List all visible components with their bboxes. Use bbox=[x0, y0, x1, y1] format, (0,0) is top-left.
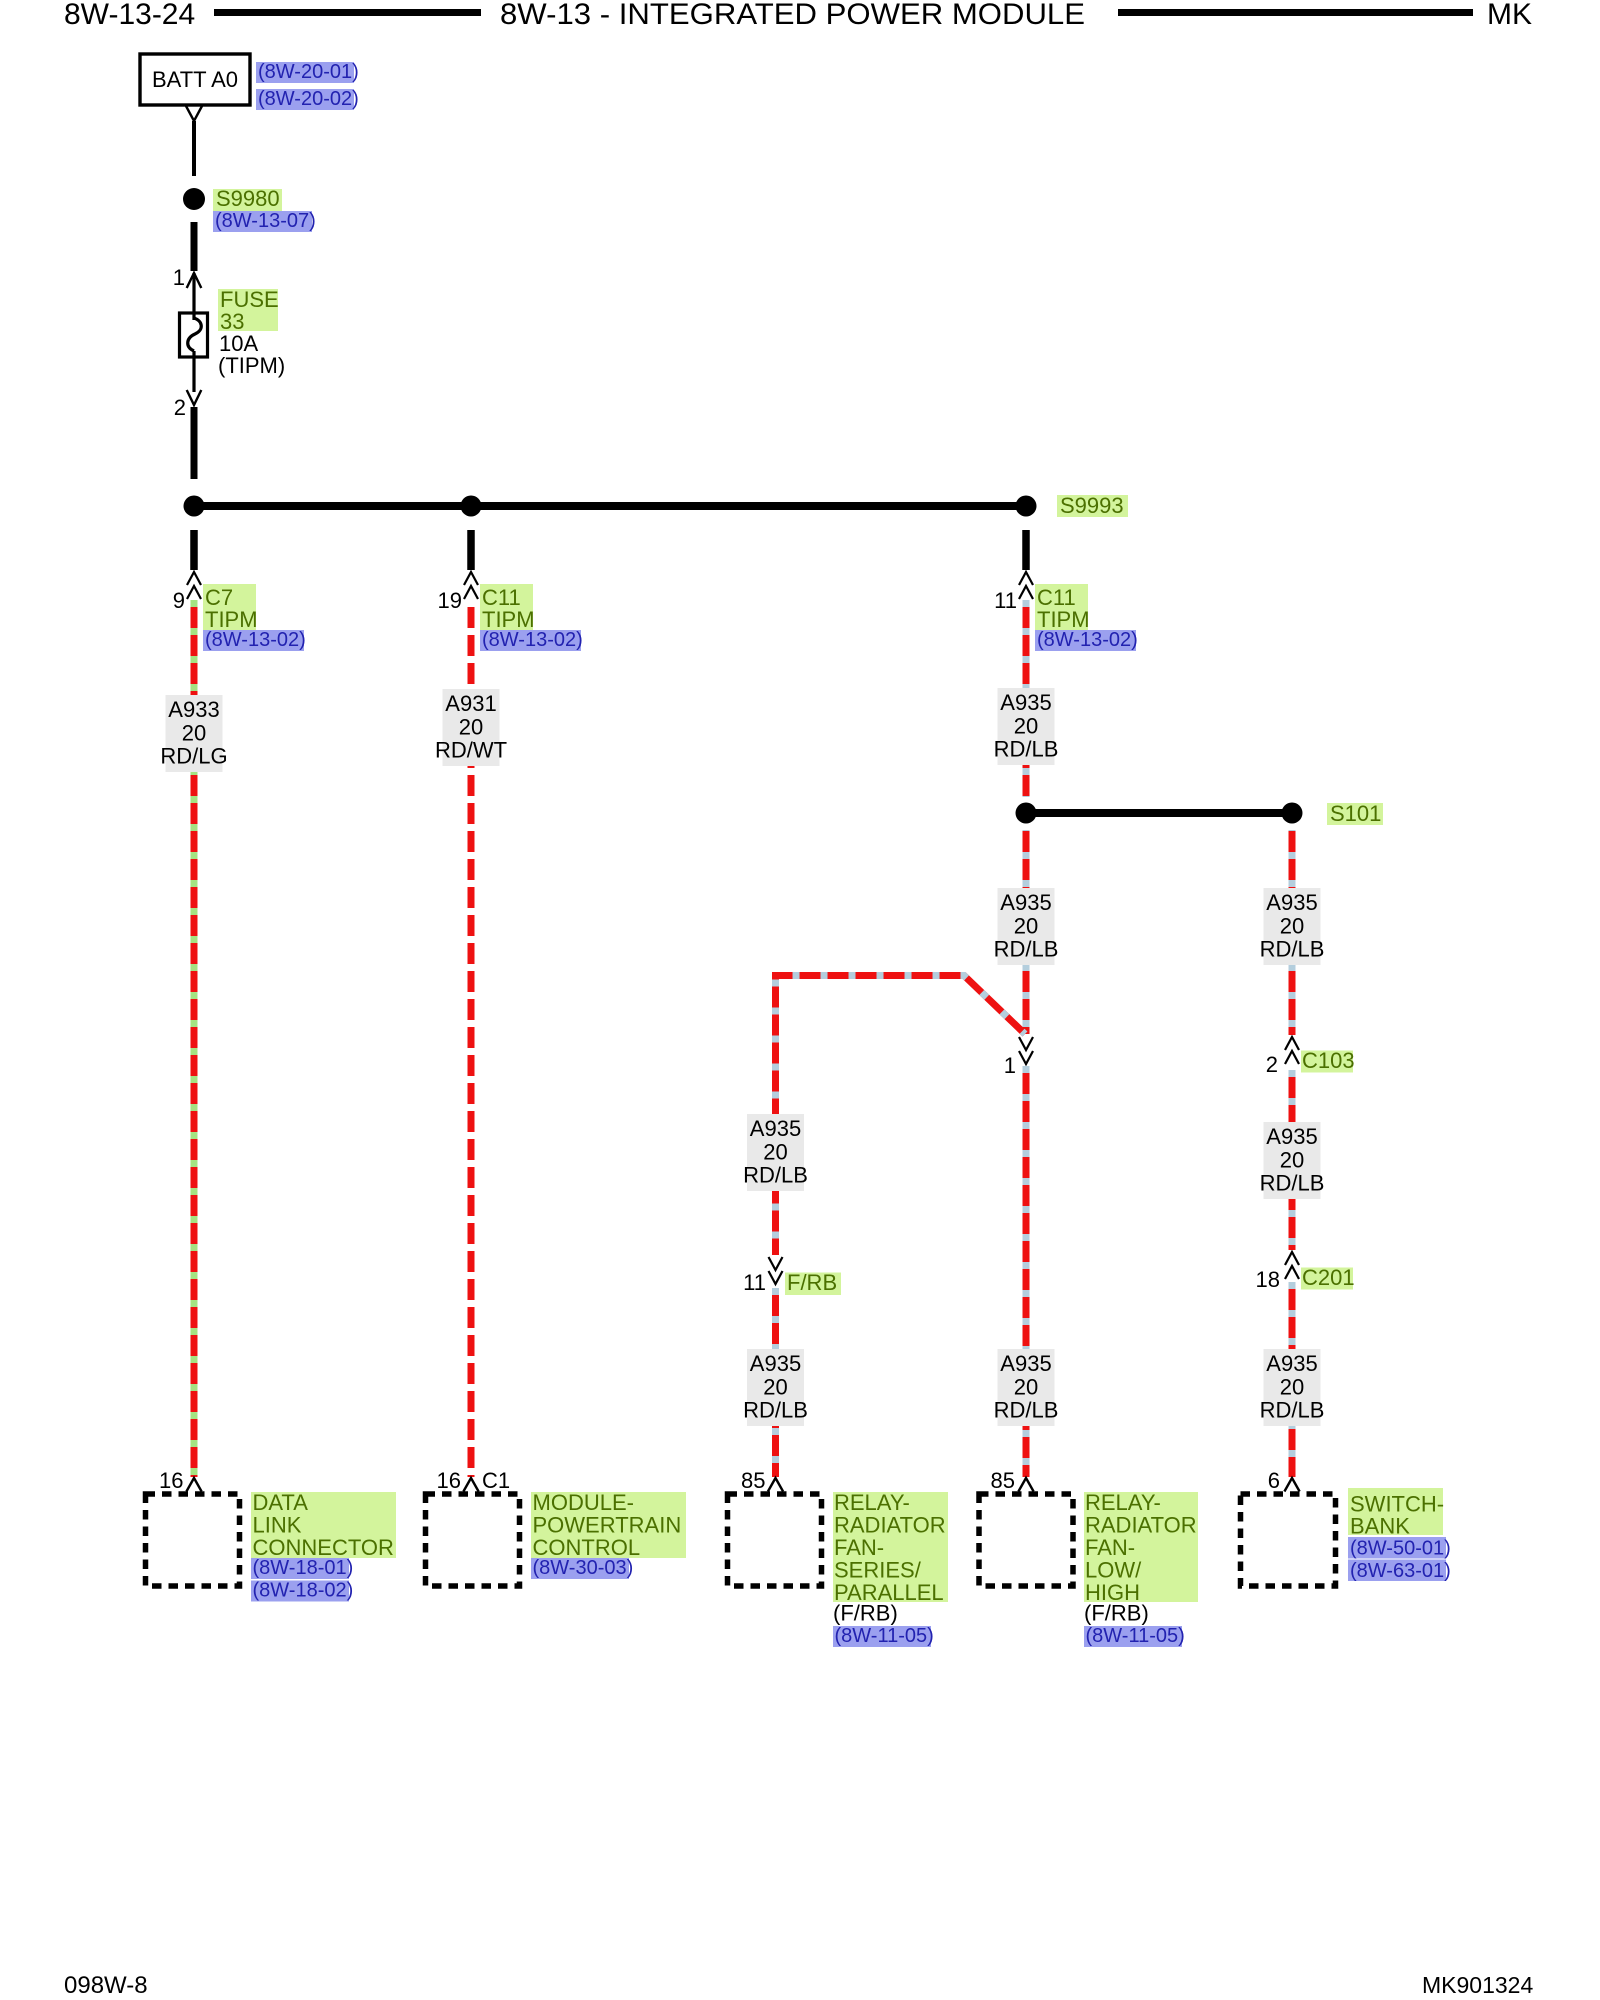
connector box data link connector bbox=[146, 1494, 240, 1586]
link (8W-50-01) bbox=[1348, 1537, 1446, 1559]
link (8W-30-03) bbox=[531, 1558, 629, 1579]
svg-text:A935: A935 bbox=[750, 1351, 801, 1376]
wire label A935 20 RD/LB (below S101 dot) bbox=[998, 888, 1055, 965]
wire label A935 20 RD/LB (right) bbox=[1264, 888, 1321, 965]
label S9980 bbox=[213, 189, 282, 211]
svg-text:(8W-20-01): (8W-20-01) bbox=[258, 61, 359, 83]
connector box relay radiator fan low/high bbox=[979, 1494, 1073, 1586]
link (8W-13-02) bbox=[203, 630, 304, 651]
wire A935 below pin 1 bbox=[1023, 1066, 1030, 1477]
svg-text:(8W-20-02): (8W-20-02) bbox=[258, 88, 359, 110]
svg-text:RD/LB: RD/LB bbox=[1260, 937, 1325, 962]
svg-text:(8W-63-01): (8W-63-01) bbox=[1350, 1560, 1451, 1582]
svg-text:1: 1 bbox=[1004, 1053, 1016, 1078]
svg-text:A935: A935 bbox=[750, 1116, 801, 1141]
svg-text:A935: A935 bbox=[1266, 890, 1317, 915]
svg-text:RD/LB: RD/LB bbox=[994, 1398, 1059, 1423]
wire A935 20 RD/LB right upper bbox=[1289, 830, 1296, 1035]
svg-text:A933: A933 bbox=[168, 697, 219, 722]
header rule left bbox=[214, 9, 481, 16]
svg-text:20: 20 bbox=[1014, 914, 1038, 939]
wire label A931 20 RD/WT bbox=[443, 689, 500, 766]
svg-text:20: 20 bbox=[182, 721, 206, 746]
wire fuse pin 2 to bus S9993 bbox=[191, 407, 198, 479]
svg-text:F/RB: F/RB bbox=[787, 1270, 837, 1295]
connector pin 9 C7 TIPM bbox=[187, 572, 201, 585]
svg-text:SERIES/: SERIES/ bbox=[834, 1558, 922, 1583]
svg-text:20: 20 bbox=[763, 1375, 787, 1400]
junction dot left bbox=[184, 496, 205, 517]
connector chevron below battery bbox=[186, 106, 202, 121]
header rule right bbox=[1118, 9, 1473, 16]
svg-text:16: 16 bbox=[437, 1468, 461, 1493]
fuse 33 element bbox=[188, 318, 202, 351]
connector pin 2 C103 bbox=[1285, 1037, 1299, 1050]
svg-text:8W-13-24: 8W-13-24 bbox=[64, 0, 195, 31]
svg-text:RD/LB: RD/LB bbox=[994, 737, 1059, 762]
junction dot S101 right bbox=[1282, 803, 1303, 824]
svg-text:RELAY-: RELAY- bbox=[834, 1490, 910, 1515]
label C103 bbox=[1301, 1051, 1353, 1073]
svg-text:098W-8: 098W-8 bbox=[64, 1972, 148, 1999]
svg-text:9: 9 bbox=[173, 588, 185, 613]
link (8W-20-02) bbox=[256, 89, 354, 110]
svg-text:A935: A935 bbox=[1000, 1351, 1051, 1376]
svg-text:C1: C1 bbox=[482, 1468, 510, 1493]
svg-text:20: 20 bbox=[1014, 1375, 1038, 1400]
label DATA LINK CONNECTOR bbox=[251, 1492, 396, 1558]
svg-text:MODULE-: MODULE- bbox=[533, 1490, 634, 1515]
svg-text:11: 11 bbox=[994, 588, 1017, 613]
junction dot middle bbox=[461, 496, 482, 517]
link (8W-11-05) bbox=[1084, 1626, 1182, 1647]
wire A935 to switch bank bbox=[1289, 1282, 1296, 1477]
wire A935 through S101 bbox=[1023, 830, 1030, 1034]
svg-text:(8W-18-02): (8W-18-02) bbox=[253, 1580, 354, 1602]
label C7 TIPM bbox=[203, 584, 256, 630]
svg-text:85: 85 bbox=[991, 1468, 1015, 1493]
wire A935 20 RD/LB upper bbox=[1023, 600, 1030, 797]
label SWITCH-BANK bbox=[1348, 1488, 1443, 1535]
label MODULE-POWERTRAIN CONTROL bbox=[531, 1492, 686, 1558]
link (8W-20-01) bbox=[256, 62, 354, 83]
wire out of fuse bbox=[192, 351, 195, 392]
label FUSE 33 bbox=[218, 289, 278, 331]
svg-text:20: 20 bbox=[459, 715, 483, 740]
svg-text:RADIATOR: RADIATOR bbox=[1085, 1513, 1197, 1538]
wire label A933 20 RD/LG bbox=[166, 695, 223, 772]
svg-text:19: 19 bbox=[438, 588, 462, 613]
link (8W-13-02) bbox=[1035, 630, 1136, 651]
junction dot right bbox=[1016, 496, 1037, 517]
wire splice S9980 to fuse pin 1 bbox=[191, 222, 198, 271]
stub from bus S9993 at x=194 bbox=[190, 530, 198, 570]
svg-text:DATA: DATA bbox=[253, 1490, 309, 1515]
svg-text:(F/RB): (F/RB) bbox=[833, 1601, 898, 1626]
svg-text:LINK: LINK bbox=[253, 1513, 302, 1538]
connector box switch bank bbox=[1241, 1494, 1336, 1586]
label C11 TIPM bbox=[480, 584, 533, 630]
svg-text:20: 20 bbox=[1280, 1375, 1304, 1400]
branch wire A935 to F/RB relay bbox=[776, 976, 1026, 1256]
svg-text:(8W-13-02): (8W-13-02) bbox=[482, 629, 583, 651]
svg-text:18: 18 bbox=[1256, 1267, 1280, 1292]
svg-text:C103: C103 bbox=[1302, 1048, 1355, 1073]
svg-text:2: 2 bbox=[174, 395, 186, 420]
connector pin 19 C11 TIPM bbox=[464, 572, 478, 585]
battery feed BATT A0 bbox=[140, 54, 250, 105]
svg-text:(8W-11-05): (8W-11-05) bbox=[835, 1625, 934, 1647]
stub from bus S9993 at x=1026 bbox=[1022, 530, 1030, 570]
svg-text:20: 20 bbox=[1014, 714, 1038, 739]
svg-text:RD/LB: RD/LB bbox=[743, 1163, 808, 1188]
svg-text:RD/WT: RD/WT bbox=[435, 738, 507, 763]
svg-text:6: 6 bbox=[1268, 1468, 1280, 1493]
svg-text:MK901324: MK901324 bbox=[1422, 1972, 1533, 1998]
connector pin 18 C201 bbox=[1285, 1252, 1299, 1265]
connector box relay radiator fan series/parallel bbox=[728, 1494, 822, 1586]
label C11 TIPM bbox=[1035, 584, 1088, 630]
label S9993 bbox=[1057, 495, 1128, 517]
svg-text:S9993: S9993 bbox=[1060, 493, 1124, 518]
link (8W-63-01) bbox=[1348, 1560, 1446, 1582]
wire label A935 20 RD/LB (mid right) bbox=[1264, 1122, 1321, 1199]
label RELAY-RADIATOR FAN-LOW/HIGH bbox=[1084, 1492, 1198, 1602]
svg-text:BATT A0: BATT A0 bbox=[152, 67, 238, 92]
svg-text:RD/LG: RD/LG bbox=[160, 744, 227, 769]
label RELAY-RADIATOR FAN-SERIES/PARALLEL bbox=[833, 1492, 948, 1602]
svg-text:85: 85 bbox=[741, 1468, 765, 1493]
svg-text:(8W-13-02): (8W-13-02) bbox=[205, 629, 306, 651]
wire A935 to series/parallel relay bbox=[772, 1288, 779, 1477]
svg-text:RD/LB: RD/LB bbox=[743, 1398, 808, 1423]
svg-text:RD/LB: RD/LB bbox=[994, 937, 1059, 962]
svg-text:MK: MK bbox=[1487, 0, 1532, 31]
svg-text:A935: A935 bbox=[1266, 1124, 1317, 1149]
svg-text:8W-13 - INTEGRATED POWER MODUL: 8W-13 - INTEGRATED POWER MODULE bbox=[500, 0, 1085, 31]
svg-text:20: 20 bbox=[1280, 1148, 1304, 1173]
svg-text:1: 1 bbox=[173, 265, 185, 290]
svg-text:C201: C201 bbox=[1302, 1265, 1355, 1290]
svg-text:RD/LB: RD/LB bbox=[1260, 1398, 1325, 1423]
svg-text:FAN-: FAN- bbox=[1085, 1535, 1135, 1560]
stub from bus S9993 at x=471 bbox=[467, 530, 475, 570]
wire label A935 20 RD/LB (left branch) bbox=[747, 1114, 804, 1191]
connector box powertrain control module bbox=[426, 1494, 520, 1586]
svg-text:(8W-50-01): (8W-50-01) bbox=[1350, 1538, 1451, 1560]
wire label A935 20 RD/LB (low/high relay) bbox=[998, 1349, 1055, 1426]
link (8W-13-07) bbox=[213, 211, 312, 232]
svg-text:20: 20 bbox=[763, 1140, 787, 1165]
junction dot S101 left bbox=[1016, 803, 1037, 824]
svg-text:20: 20 bbox=[1280, 914, 1304, 939]
link (8W-18-01) bbox=[251, 1558, 349, 1579]
svg-text:RELAY-: RELAY- bbox=[1085, 1490, 1161, 1515]
svg-text:(8W-11-05): (8W-11-05) bbox=[1086, 1625, 1185, 1647]
label F/RB bbox=[785, 1273, 841, 1296]
splice S9980 bbox=[183, 188, 205, 210]
svg-text:POWERTRAIN: POWERTRAIN bbox=[533, 1513, 682, 1538]
wire label A935 20 RD/LB (series relay) bbox=[747, 1349, 804, 1426]
connector pin 1 bbox=[1019, 1037, 1033, 1050]
svg-text:A931: A931 bbox=[445, 691, 496, 716]
svg-text:16: 16 bbox=[159, 1468, 183, 1493]
svg-text:(8W-13-07): (8W-13-07) bbox=[215, 210, 316, 232]
bus wire S101 bbox=[1026, 809, 1292, 817]
link (8W-13-02) bbox=[480, 630, 581, 651]
wire battery to splice S9980 bbox=[192, 121, 196, 176]
wire A935 between C103 and C201 bbox=[1289, 1070, 1296, 1250]
wire A931 20 RD/WT bbox=[468, 600, 475, 1477]
connector pin 11 C11 TIPM bbox=[1019, 572, 1033, 585]
connector pin 11 F/RB bbox=[769, 1257, 783, 1270]
svg-text:A935: A935 bbox=[1000, 690, 1051, 715]
link (8W-18-02) bbox=[251, 1581, 349, 1602]
svg-text:A935: A935 bbox=[1000, 890, 1051, 915]
svg-text:(8W-13-02): (8W-13-02) bbox=[1037, 629, 1138, 651]
svg-text:S9980: S9980 bbox=[216, 186, 280, 211]
svg-text:(F/RB): (F/RB) bbox=[1084, 1601, 1149, 1626]
svg-text:BANK: BANK bbox=[1350, 1514, 1410, 1539]
wire A933 20 RD/LG bbox=[191, 600, 198, 1477]
svg-text:(8W-18-01): (8W-18-01) bbox=[253, 1557, 354, 1579]
svg-text:(TIPM): (TIPM) bbox=[218, 353, 285, 378]
label C201 bbox=[1301, 1268, 1353, 1290]
label S101 bbox=[1327, 803, 1383, 825]
svg-text:FAN-: FAN- bbox=[834, 1535, 884, 1560]
wire into fuse bbox=[192, 273, 195, 320]
wire label A935 20 RD/LB (switch bank) bbox=[1264, 1349, 1321, 1426]
wire label A935 20 RD/LB (above S101) bbox=[998, 688, 1055, 765]
svg-text:LOW/: LOW/ bbox=[1085, 1558, 1142, 1583]
svg-text:RD/LB: RD/LB bbox=[1260, 1171, 1325, 1196]
svg-text:(8W-30-03): (8W-30-03) bbox=[533, 1557, 634, 1579]
svg-text:S101: S101 bbox=[1330, 801, 1381, 826]
svg-text:RADIATOR: RADIATOR bbox=[834, 1513, 946, 1538]
svg-text:11: 11 bbox=[743, 1270, 766, 1295]
svg-text:2: 2 bbox=[1266, 1052, 1278, 1077]
bus wire S9993 bbox=[194, 502, 1026, 510]
link (8W-11-05) bbox=[833, 1626, 931, 1647]
svg-text:A935: A935 bbox=[1266, 1351, 1317, 1376]
